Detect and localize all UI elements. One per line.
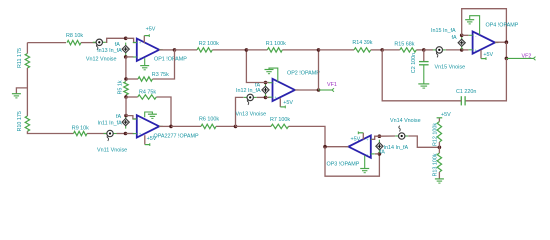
resistor R15 — [400, 48, 417, 52]
ground OP3 — [360, 156, 369, 173]
svg-text:OP3 !OPAMP: OP3 !OPAMP — [327, 161, 360, 167]
svg-text:R15 68k: R15 68k — [394, 42, 414, 48]
wire U5 out — [159, 125, 171, 127]
node U5 output — [169, 125, 173, 129]
resistor R7 — [271, 124, 289, 128]
current noise source In12 (diamond) — [262, 83, 269, 96]
wire Vn14 to divider — [408, 136, 439, 147]
node OP3 output — [323, 145, 327, 149]
svg-text:VF2: VF2 — [522, 53, 532, 59]
wire node M to Vn14 — [379, 135, 395, 137]
wire down to rail — [465, 58, 506, 100]
svg-text:R9 10k: R9 10k — [72, 126, 89, 132]
resistor R9 — [74, 131, 88, 135]
wire C2 bottom lead — [423, 65, 425, 84]
svg-text:Vn12 Vnoise: Vn12 Vnoise — [86, 57, 117, 63]
wire node F to OP2 +in — [266, 96, 270, 98]
svg-text:fA: fA — [380, 150, 385, 156]
svg-text:VF1: VF1 — [327, 82, 337, 88]
svg-text:R7 100k: R7 100k — [270, 117, 290, 123]
ground R13 — [435, 179, 444, 183]
svg-text:+5V: +5V — [351, 137, 361, 143]
+5V supply OP2 — [280, 98, 285, 108]
node I junction (C2 tap) — [422, 48, 426, 52]
wire R9 to Vn11 — [87, 133, 107, 135]
resistor R2 — [197, 48, 212, 52]
wire node L to OP3 -in — [375, 153, 380, 155]
svg-text:In15 In_fA: In15 In_fA — [431, 28, 456, 34]
label C1 — [456, 89, 476, 95]
svg-text:OPA2277 !OPAMP: OPA2277 !OPAMP — [154, 134, 199, 140]
wire R3 right to OP1 out — [153, 50, 175, 79]
wire node G to OP2 -in — [266, 82, 270, 84]
resistor R7 lead — [236, 125, 272, 127]
node OP1 output — [173, 48, 177, 52]
capacitor C1 — [461, 96, 465, 105]
wire Vn12 to node A — [106, 38, 126, 42]
svg-text:R14 39k: R14 39k — [352, 40, 372, 46]
wire OP2 out — [295, 89, 319, 91]
label fA In15 — [452, 35, 457, 41]
ground OP2 top — [265, 68, 278, 82]
node divider junction — [438, 146, 442, 150]
resistor R6 — [201, 124, 216, 128]
resistor R1 — [267, 48, 282, 52]
wire -in column R4node to node D — [125, 97, 127, 116]
wire -in column down — [125, 57, 127, 79]
svg-text:OP1 !OPAMP: OP1 !OPAMP — [154, 57, 187, 63]
wire R10 to bottom corner — [27, 131, 73, 133]
label OP2 — [287, 70, 320, 76]
svg-text:OP4 !OPAMP: OP4 !OPAMP — [486, 23, 519, 29]
op-amp OP2 — [269, 79, 299, 101]
svg-text:OP2 !OPAMP: OP2 !OPAMP — [287, 70, 320, 76]
svg-text:+5V: +5V — [441, 112, 451, 118]
label R9 — [72, 126, 89, 132]
resistor R13 — [437, 153, 441, 172]
label OP3 — [327, 161, 360, 167]
voltage noise source Vn12 (circle) — [93, 39, 106, 50]
wire top-left corner node — [27, 42, 66, 44]
label R4 — [139, 89, 156, 95]
+5V supply OP3 — [358, 131, 363, 139]
wire R6 to node E — [216, 125, 236, 127]
svg-text:R4 75k: R4 75k — [139, 89, 156, 95]
label R15 — [394, 42, 414, 48]
node E junction (R6/R7/Vn13) — [234, 125, 238, 129]
op-amp OP1 — [133, 39, 163, 61]
label R2 — [199, 41, 219, 47]
wire node B to OP1 -in — [126, 56, 134, 58]
probe VF1 — [319, 88, 335, 92]
label +5V OP2 — [283, 100, 293, 106]
node VF2 branch — [505, 57, 509, 61]
wire R2 to node — [212, 49, 246, 51]
svg-text:fA: fA — [115, 42, 120, 48]
wire OP3 feedback loop — [325, 147, 379, 177]
label In15 — [431, 28, 456, 34]
resistor R3 — [138, 77, 153, 81]
node R2/R1 junction — [245, 48, 249, 52]
label In12 — [236, 88, 261, 94]
wire R7 to OP3 out — [289, 126, 326, 146]
label C2 — [411, 53, 417, 73]
label R5 — [118, 80, 124, 94]
svg-text:+5V: +5V — [283, 100, 293, 106]
svg-text:C2 100n: C2 100n — [411, 53, 417, 73]
node OP4 output — [505, 40, 509, 44]
wire ground branch — [16, 88, 27, 94]
label +5V OP3 — [351, 137, 361, 143]
label R13 — [433, 153, 439, 176]
label OP1 — [154, 57, 187, 63]
wire OP4 out down — [505, 42, 507, 58]
svg-text:Vn14 Vnoise: Vn14 Vnoise — [390, 118, 421, 124]
wire node to R1 — [246, 49, 267, 51]
node J junction (OP4 +in) — [460, 48, 464, 52]
label +5V OP4 — [483, 52, 493, 58]
node R4 left — [124, 95, 128, 99]
node R3 left — [124, 77, 128, 81]
svg-text:+5V: +5V — [483, 52, 493, 58]
wire R12 to node — [438, 142, 440, 147]
wire node M to OP3 +in — [372, 136, 380, 139]
svg-text:R6 100k: R6 100k — [199, 117, 219, 123]
wire R4 right to U5 out — [156, 97, 171, 126]
wire OP4 out — [495, 41, 506, 43]
voltage noise source Vn15 (circle) — [433, 47, 446, 58]
label R14 — [352, 40, 372, 46]
label R10 — [17, 111, 23, 131]
svg-text:R13 100k: R13 100k — [433, 153, 439, 176]
wire main to OP2 -in column — [246, 50, 265, 83]
wire node to R13 — [438, 147, 440, 153]
wire R13 to ground — [438, 172, 440, 179]
wire R14 to node H — [371, 49, 383, 51]
wire Vn15 to node J — [446, 49, 462, 51]
node D junction (U5 -in column) — [124, 114, 128, 118]
label fA In14 — [380, 150, 385, 156]
wire R5 to R4 node — [125, 95, 127, 97]
label R12 — [433, 123, 439, 146]
resistor R10 — [25, 116, 29, 131]
op-amp U5 OPA2277 — [133, 115, 163, 137]
label R8 — [66, 33, 83, 39]
svg-text:fA: fA — [255, 83, 260, 89]
label R11 — [17, 48, 23, 68]
voltage noise source Vn13 (circle) — [244, 94, 257, 105]
ground C2 — [418, 84, 429, 88]
node R1/OP2out junction — [317, 48, 321, 52]
svg-text:R11 175: R11 175 — [17, 48, 23, 68]
node OP2 output — [317, 88, 321, 92]
svg-text:R10 175: R10 175 — [17, 111, 23, 131]
wire OP4 feedback top — [462, 9, 507, 43]
node G junction (OP2 -in) — [264, 81, 268, 85]
svg-text:+5V: +5V — [147, 136, 157, 142]
label In13 — [97, 48, 122, 54]
wire node H to R15 — [382, 49, 400, 51]
node B junction (OP1 -in column) — [124, 55, 128, 59]
svg-text:R8 10k: R8 10k — [66, 33, 83, 39]
label OPA2277 — [154, 134, 199, 140]
resistor R8 — [67, 40, 81, 44]
probe VF2 — [506, 57, 535, 61]
label Vn14 — [390, 118, 421, 124]
node C junction (U5 +in) — [124, 132, 128, 136]
wire OP3 out — [325, 146, 348, 148]
wire R3 left lead — [126, 78, 138, 80]
wire node J to OP4 +in — [462, 49, 469, 51]
wire node C to U5 +in — [126, 133, 134, 135]
svg-text:R3 75k: R3 75k — [152, 72, 169, 78]
resistor R5 — [124, 82, 128, 95]
label R6 — [199, 117, 219, 123]
node H junction (R14/R15/rail) — [380, 48, 384, 52]
node K junction (OP4 -in) — [460, 34, 464, 38]
wire node E up to Vn13 — [236, 97, 244, 126]
wire OP1out to R2 — [175, 49, 198, 51]
node L junction (OP3 -in) — [378, 152, 382, 156]
resistor R14 — [354, 48, 371, 52]
wire R4 left lead — [126, 96, 138, 98]
wire Vn13 to node F — [257, 96, 266, 98]
voltage noise source Vn14 (circle) — [395, 126, 408, 139]
label R7 — [270, 117, 290, 123]
svg-text:R1 100k: R1 100k — [266, 41, 286, 47]
svg-text:fA: fA — [116, 114, 121, 120]
ground U5 top — [145, 112, 157, 118]
wire R11 bottom to ground branch — [26, 68, 28, 116]
current noise source In14 (diamond) — [376, 140, 383, 153]
node F junction (OP2 +in) — [264, 96, 268, 100]
svg-text:Vn13 Vnoise: Vn13 Vnoise — [236, 111, 267, 117]
ground OP1 — [140, 58, 149, 70]
current noise source In11 (diamond) — [122, 116, 129, 129]
label fA In12 — [255, 83, 260, 89]
wire OP1 out — [159, 49, 174, 51]
svg-text:Vn15 Vnoise: Vn15 Vnoise — [435, 64, 466, 70]
wire node K to OP4 -in — [462, 34, 469, 36]
label fA In11 — [116, 114, 121, 120]
ground left rail — [12, 94, 21, 98]
wire R1 to node — [282, 49, 318, 51]
label +5V OP1 — [146, 27, 156, 33]
label fA In13 — [115, 42, 120, 48]
label R3 — [152, 72, 169, 78]
label +5V U5 — [147, 136, 157, 142]
wire R15 to node I — [416, 49, 424, 51]
label OP4 — [486, 23, 519, 29]
svg-text:+5V: +5V — [146, 27, 156, 33]
label Vn13 — [236, 111, 267, 117]
+5V supply R12 — [437, 118, 443, 122]
wire OP2 out up to main — [318, 50, 320, 90]
current noise source In13 (diamond) — [122, 43, 129, 56]
op-amp OP3 — [345, 136, 375, 158]
resistor R11 — [25, 54, 29, 69]
label VF1 — [327, 82, 337, 88]
svg-text:In14 In_fA: In14 In_fA — [384, 145, 409, 151]
wire U5 out to R6 — [171, 125, 201, 127]
label In14 — [384, 145, 409, 151]
wire node to R14 — [319, 49, 355, 51]
label VF2 — [522, 53, 532, 59]
svg-text:Vn11 Vnoise: Vn11 Vnoise — [97, 148, 127, 154]
svg-text:fA: fA — [452, 35, 457, 41]
wire node D to U5 -in — [126, 116, 136, 119]
wire R11 top — [26, 43, 28, 54]
capacitor C2 — [419, 62, 429, 65]
wire C2 top lead — [423, 50, 425, 61]
op-amp OP4 — [469, 31, 499, 53]
label +5V R12 — [441, 112, 451, 118]
wire Vn11 to node C — [117, 133, 126, 135]
svg-text:R12 100k: R12 100k — [433, 123, 439, 146]
current noise source In15 (diamond) — [458, 36, 465, 49]
wire rail C1 to node H — [382, 50, 461, 101]
label R1 — [266, 41, 286, 47]
svg-text:C1 220n: C1 220n — [456, 89, 476, 95]
svg-text:R5 1k: R5 1k — [118, 80, 124, 94]
resistor R12 — [437, 122, 441, 143]
node A junction (OP1 +in column) — [124, 37, 128, 41]
label Vn11 — [97, 148, 127, 154]
wire node I to Vn15 — [424, 49, 433, 51]
svg-text:In13 In_fA: In13 In_fA — [97, 48, 122, 54]
+5V supply OP1 — [144, 34, 149, 43]
label In11 — [98, 120, 123, 126]
ground OP4 top — [465, 16, 479, 35]
voltage noise source Vn11 (circle) — [104, 130, 117, 141]
+5V supply OP4 — [481, 50, 486, 60]
resistor R4 — [138, 95, 157, 99]
wire R8 to Vn12 — [81, 42, 96, 44]
node M junction (OP3 +in) — [378, 134, 382, 138]
svg-text:R2 100k: R2 100k — [199, 41, 219, 47]
wire node A to OP1 +in — [126, 38, 137, 42]
+5V supply U5 — [145, 135, 150, 146]
label Vn12 — [86, 57, 117, 63]
label Vn15 — [435, 64, 466, 70]
svg-text:In12 In_fA: In12 In_fA — [236, 88, 261, 94]
svg-text:In11 In_fA: In11 In_fA — [98, 120, 123, 126]
